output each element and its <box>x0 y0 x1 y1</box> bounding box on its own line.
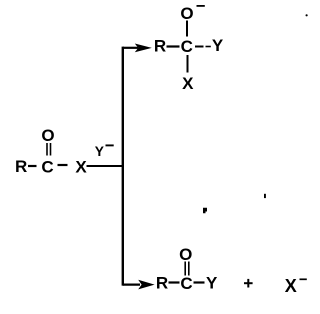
svg-text:C: C <box>180 274 192 293</box>
svg-text:X: X <box>285 276 297 296</box>
svg-text:R: R <box>15 157 27 176</box>
svg-text:O: O <box>179 245 192 264</box>
svg-text:Y: Y <box>206 274 218 293</box>
svg-text:O: O <box>180 4 193 23</box>
svg-text:C: C <box>41 158 53 177</box>
svg-text:O: O <box>41 126 54 145</box>
svg-text:R: R <box>156 274 168 293</box>
svg-text:Y: Y <box>212 36 224 55</box>
svg-text:C: C <box>181 37 193 56</box>
svg-text:R: R <box>154 37 166 56</box>
svg-text:X: X <box>182 74 194 93</box>
svg-text:X: X <box>75 158 87 177</box>
svg-text:Y: Y <box>95 144 104 159</box>
